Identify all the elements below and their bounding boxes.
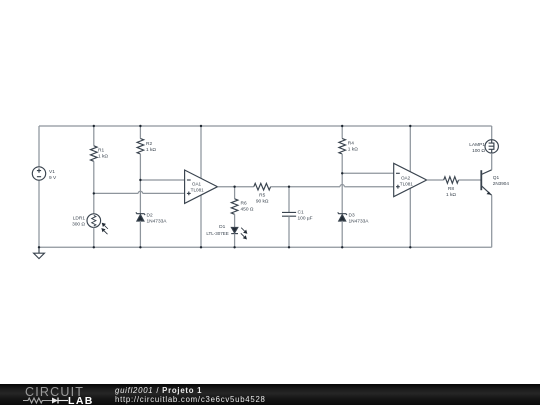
svg-text:OA2: OA2 — [401, 175, 411, 180]
svg-text:D3: D3 — [349, 212, 355, 218]
wire OA2 inverting input — [342, 172, 394, 174]
wire OA1 output — [218, 186, 254, 188]
value label R2 1 kOhm — [146, 141, 156, 153]
value label R1 1 kOhm — [98, 148, 108, 160]
svg-text:TL081: TL081 — [191, 188, 204, 193]
LED D1 emission arrows — [241, 228, 247, 239]
value label R8 1 kOhm — [446, 186, 456, 198]
wire C1 top — [288, 187, 290, 213]
wire R5 to OA2 non-inverting input with hop — [271, 185, 394, 187]
svg-text:1 kΩ: 1 kΩ — [446, 192, 456, 198]
wire D1 to bottom rail — [234, 234, 236, 248]
wire R6 top — [234, 187, 236, 199]
wire left branch below V1 — [38, 180, 40, 247]
CircuitLab logo wordmark CIRCUIT — [25, 385, 84, 399]
CircuitLab logo resistor-diode glyph — [22, 396, 70, 405]
wire D3 to bottom rail — [341, 221, 343, 248]
svg-text:D1: D1 — [219, 224, 225, 230]
svg-text:R4: R4 — [348, 140, 354, 146]
value label LDR1 300 Ohm — [72, 215, 85, 227]
svg-text:C1: C1 — [298, 210, 304, 216]
capacitor C1 — [282, 212, 296, 216]
wire R1 to LDR1 — [93, 161, 95, 214]
CircuitLab logo wordmark LAB — [68, 395, 94, 405]
op-amp OA1 power pins — [200, 126, 202, 247]
resistor R6 — [231, 199, 238, 214]
svg-text:D2: D2 — [147, 213, 153, 219]
wire D2 to bottom rail — [139, 221, 141, 248]
svg-text:TL081: TL081 — [400, 181, 413, 186]
value label OA1 TL081 — [191, 182, 204, 193]
svg-text:LAMP1: LAMP1 — [469, 142, 485, 148]
svg-text:100 Ω: 100 Ω — [472, 148, 485, 154]
svg-text:90 kΩ: 90 kΩ — [256, 198, 269, 204]
wire LDR1 to bottom rail — [93, 227, 95, 247]
resistor R2 — [137, 139, 144, 154]
LDR1 light arrows — [102, 223, 108, 234]
svg-text:R2: R2 — [146, 141, 152, 147]
wire bottom rail — [39, 246, 492, 248]
wire lamp to Q1 collector — [491, 153, 493, 170]
value label D2 1N4733A — [147, 213, 168, 225]
zener diode D3 — [338, 212, 347, 221]
value label OA2 TL081 — [400, 175, 413, 186]
wire OA2 output — [427, 179, 444, 181]
op-amp OA2 — [394, 163, 427, 196]
svg-text:R6: R6 — [241, 200, 247, 206]
resistor R5 — [254, 183, 271, 190]
svg-text:9 V: 9 V — [49, 175, 57, 181]
svg-text:1 kΩ: 1 kΩ — [146, 147, 156, 153]
wire R2 to D2 — [139, 154, 141, 214]
svg-text:V1: V1 — [49, 169, 55, 175]
wire R2 column top — [139, 126, 141, 139]
value label D1 LTL-307EE — [206, 224, 228, 236]
value label Q1 2N3904 — [493, 175, 510, 186]
value label R6 450 Ohm — [241, 200, 254, 212]
svg-text:450 Ω: 450 Ω — [241, 206, 254, 212]
svg-text:LDR1: LDR1 — [73, 215, 86, 221]
wire OA1 non-inverting input with hop — [94, 191, 185, 193]
wire C1 to bottom rail — [288, 216, 290, 247]
value label LAMP1 100 Ohm — [469, 142, 485, 154]
op-amp OA1 — [185, 170, 218, 203]
value label R4 1 kOhm — [348, 140, 358, 152]
svg-text:2N3904: 2N3904 — [493, 181, 510, 186]
voltage source V1 — [32, 167, 45, 180]
junction dots — [38, 125, 412, 249]
svg-text:1 kΩ: 1 kΩ — [98, 154, 108, 160]
svg-text:1N4733A: 1N4733A — [349, 218, 370, 224]
url text — [115, 395, 266, 404]
value label D3 1N4733A — [349, 212, 370, 224]
wire R1 column top — [93, 126, 95, 146]
value label V1 9 V — [49, 169, 57, 181]
transistor Q1 — [481, 170, 491, 196]
svg-text:300 Ω: 300 Ω — [72, 221, 85, 227]
value label C1 100 uF — [298, 210, 313, 222]
photoresistor LDR1 — [87, 214, 101, 228]
svg-text:R1: R1 — [98, 148, 104, 154]
wire R8 to Q1 base — [459, 179, 482, 181]
lamp LAMP1 — [485, 140, 498, 153]
wire R4 column top — [341, 126, 343, 139]
svg-text:1 kΩ: 1 kΩ — [348, 146, 358, 152]
title text guifl2001 / Projeto 1 — [115, 386, 202, 395]
wire Q1 emitter to bottom rail — [491, 195, 493, 247]
LED D1 — [231, 227, 238, 233]
wire top rail — [39, 125, 492, 127]
resistor R8 — [444, 177, 459, 184]
svg-text:OA1: OA1 — [192, 182, 202, 187]
wire R4 to D3 — [341, 154, 343, 214]
wire OA1 inverting input — [140, 179, 184, 181]
resistor R1 — [91, 146, 98, 161]
resistor R4 — [339, 139, 346, 154]
op-amp OA2 power pins — [409, 126, 411, 247]
ground — [34, 247, 45, 258]
svg-text:LTL-307EE: LTL-307EE — [206, 231, 228, 236]
svg-text:100 µF: 100 µF — [298, 216, 313, 222]
svg-text:1N4733A: 1N4733A — [147, 219, 168, 225]
wire lamp branch top — [491, 126, 493, 140]
wire R6 to D1 — [234, 214, 236, 227]
footer bar — [0, 384, 540, 405]
zener diode D2 — [136, 212, 145, 221]
svg-text:R5: R5 — [259, 192, 265, 198]
value label R5 90 kOhm — [256, 192, 269, 204]
wire left branch above V1 — [38, 126, 40, 167]
svg-text:R8: R8 — [448, 186, 454, 192]
